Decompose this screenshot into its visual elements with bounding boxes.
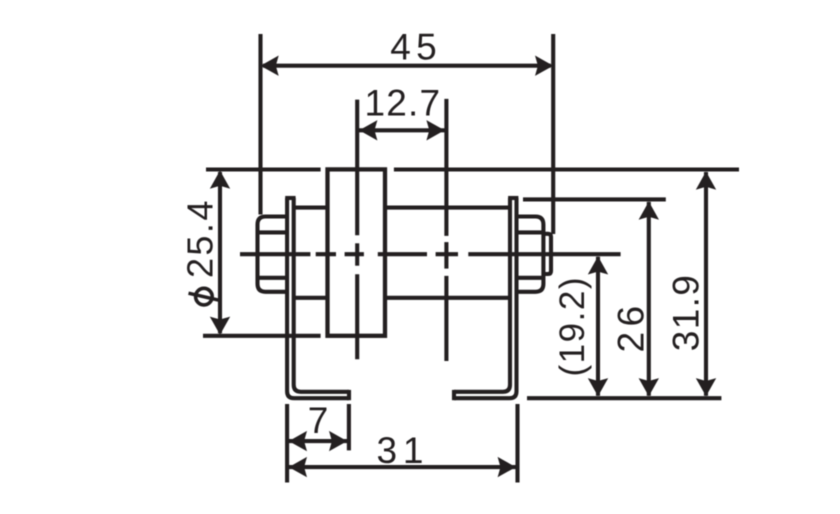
arrowhead phi25.4 down [210,317,230,335]
center line vertical right [444,99,448,361]
nut right body [517,217,544,292]
svg-text:12.7: 12.7 [365,82,441,123]
7 dimension line [289,439,347,443]
26 dimension line [647,202,651,396]
roller top edge left segment [294,206,328,210]
center line horizontal [240,252,621,256]
wire bottom reference line [527,396,721,400]
svg-text:31.9: 31.9 [666,275,707,351]
bracket right foot end cap [452,390,456,400]
wire top extension line y169 right segment [394,167,739,171]
bracket left outer line [287,198,349,398]
12.7 dimension line [359,128,445,132]
roller bottom edge left segment [294,296,328,300]
nut right facet line upper [517,230,543,234]
arrowhead 7 right [329,431,347,451]
svg-text:(19.2): (19.2) [553,278,592,377]
7 extension line left [285,404,289,483]
arrowhead 31 left [289,457,307,477]
nut left body [258,217,289,292]
arrowhead 26 up [639,202,659,220]
31.9 dimension line [704,172,708,396]
wire hub bottom extension line [203,334,321,338]
arrowhead phi25.4 up [210,171,230,189]
wire 26-dim top extension line [523,197,666,201]
bracket right outer line [454,198,517,398]
shaft end stub [543,234,551,274]
roller top edge right segment [385,206,510,210]
svg-text:25.4: 25.4 [180,201,221,278]
bracket right inner line [454,198,510,392]
center line vertical left [355,100,359,360]
arrowhead 31.9 down [696,378,716,396]
bracket left inner line [294,198,349,392]
arrowhead 45 right [535,56,553,76]
45 extension line left [258,34,262,215]
bracket left top cap [285,196,295,200]
hub rectangle [328,169,386,335]
arrowhead 12.7 right [426,120,444,140]
nut left facet line upper [258,230,288,234]
diameter symbol slash [189,293,219,300]
31 extension line right [515,404,519,483]
arrowhead 31 right [498,457,516,477]
wire top extension line y169 left segment [206,167,321,171]
19.2 dimension line [596,257,600,396]
nut left facet line lower [258,276,288,280]
arrowhead 19.2 down [588,378,608,396]
phi25.4 dimension line [218,172,222,333]
nut right facet line lower [517,276,543,280]
45 extension line right [551,34,555,234]
arrowhead 26 down [639,378,659,396]
arrowhead 31.9 up [696,172,716,190]
svg-text:26: 26 [611,306,652,353]
arrowhead 7 left [289,431,307,451]
45 dimension line [263,64,551,68]
31 dimension line [289,465,516,469]
svg-text:45: 45 [390,27,437,68]
bracket right top cap [508,196,518,200]
diameter symbol circle [196,288,213,305]
svg-text:7: 7 [308,400,329,441]
7 extension line right [347,404,351,450]
arrowhead 19.2 up [588,256,608,274]
arrowhead 12.7 left [359,120,377,140]
roller bottom edge right segment [385,296,510,300]
bracket left foot end cap [347,390,351,400]
arrowhead 45 left [261,56,279,76]
